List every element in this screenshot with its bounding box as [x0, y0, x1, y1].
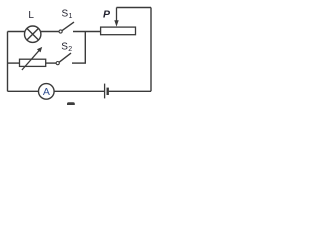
node junction vertical (S2 branch join) — [84, 32, 86, 64]
resistor R (adjustable) body — [20, 59, 46, 66]
rheostat P wiper arrow — [116, 8, 118, 22]
battery long plate — [104, 84, 106, 99]
svg-text:2: 2 — [68, 46, 72, 53]
wire left vertical — [7, 32, 9, 92]
lamp L — [25, 26, 41, 42]
wire right vertical — [150, 8, 152, 92]
svg-text:P: P — [103, 9, 111, 21]
resistor R wiper arrow diagonal — [22, 50, 40, 70]
wire second row from left wire to resistor — [8, 62, 20, 64]
svg-text:A: A — [43, 86, 50, 98]
svg-text:S: S — [61, 41, 68, 52]
svg-text:S: S — [62, 8, 69, 19]
svg-text:L: L — [28, 10, 34, 21]
rheostat P body — [101, 27, 136, 35]
battery short plate — [106, 88, 108, 95]
svg-text:1: 1 — [69, 13, 73, 20]
wire top from wiper to right corner — [117, 7, 152, 9]
switch S2 blade — [59, 53, 71, 62]
wire S2 to junction corner — [72, 62, 86, 64]
wire resistor to switch S2 — [46, 62, 56, 64]
wire S1 to rheostat P — [73, 31, 101, 33]
switch S2 pivot — [56, 62, 59, 65]
wire battery to ammeter — [54, 90, 104, 92]
wire ammeter to left corner — [8, 90, 39, 92]
wire top row from left corner to lamp — [8, 31, 26, 33]
switch S1 pivot — [59, 30, 62, 33]
cropped widget bottom — [67, 102, 75, 106]
wire bottom from right corner to battery — [109, 90, 151, 92]
ammeter A — [39, 84, 55, 100]
switch S1 blade — [62, 22, 74, 31]
wire lamp to switch S1 — [41, 31, 59, 33]
